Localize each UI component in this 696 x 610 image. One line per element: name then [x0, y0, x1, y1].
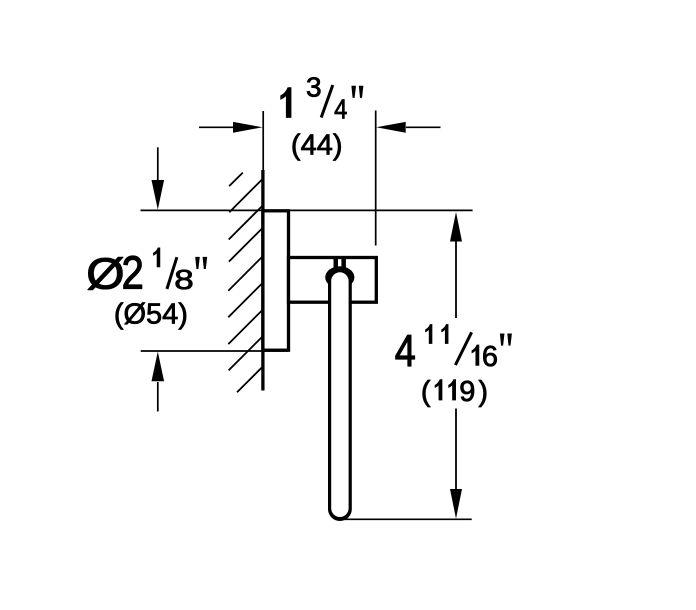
extension line, escutcheon bottom level — [141, 350, 288, 352]
wall hatching — [228, 173, 263, 393]
svg-text:Ø: Ø — [86, 249, 124, 298]
holder body block — [289, 258, 377, 303]
label (119) mm — [421, 376, 491, 408]
svg-text:3: 3 — [306, 72, 322, 103]
label diameter 2 1/8 inch — [86, 248, 207, 300]
dimension line 1 3/4", right segment — [376, 122, 440, 133]
svg-text:2: 2 — [122, 248, 144, 299]
dimension line 4 11/16", lower segment — [450, 409, 462, 519]
dimension line 1 3/4", left segment — [199, 122, 263, 133]
svg-text:(44): (44) — [291, 130, 343, 162]
diameter dimension arrow, upper — [152, 147, 165, 209]
extension line, escutcheon top level — [141, 209, 473, 211]
extension line, body front face (vertical) — [375, 111, 377, 246]
loop tube outline — [328, 275, 352, 521]
escutcheon plate (side view) — [263, 211, 289, 350]
svg-text:6: 6 — [482, 341, 498, 373]
loop tube inner face — [331, 272, 348, 517]
diameter dimension arrow, lower — [152, 352, 165, 412]
label 4 11/16 inch — [395, 324, 512, 375]
svg-text:4: 4 — [395, 325, 416, 376]
label 1 3/4 inch — [280, 72, 363, 125]
svg-text:(: ( — [421, 376, 431, 408]
svg-text:9): 9) — [459, 376, 491, 408]
svg-text:(Ø54): (Ø54) — [114, 298, 188, 330]
svg-text:8: 8 — [174, 263, 193, 295]
wall face line — [261, 170, 264, 391]
spare roll holder loop — [325, 259, 354, 521]
dimension line 4 11/16", upper segment — [450, 212, 462, 318]
pivot pin bars — [334, 259, 339, 270]
extension line, wall face (vertical) — [262, 111, 264, 171]
svg-text:4: 4 — [334, 93, 347, 125]
pivot boss — [325, 266, 354, 288]
extension line, loop bottom level — [342, 518, 472, 520]
